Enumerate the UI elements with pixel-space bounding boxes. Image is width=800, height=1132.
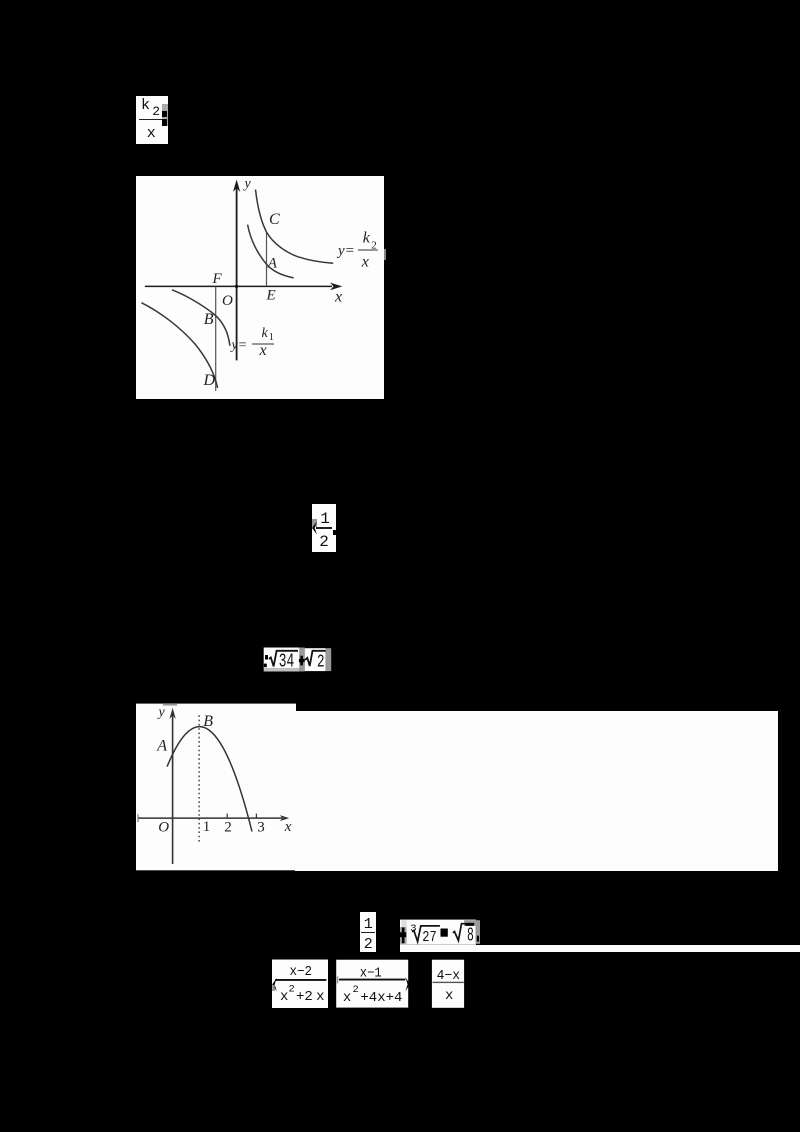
fraction bar [139, 119, 163, 121]
formula image 1/2 (bottom) [360, 912, 376, 952]
fraction bar 2 [339, 979, 405, 981]
gray block top right [464, 920, 476, 926]
fraction box (x-2)/(x^2+2x) [272, 960, 328, 1009]
hyperbola k2 outer branch (Q1) [256, 190, 334, 264]
left edge tick [137, 814, 139, 822]
svg-text:2: 2 [317, 651, 325, 672]
y-axis [171, 715, 173, 864]
graph 2 (parabola) [136, 703, 296, 871]
black artifact blob 2 [162, 119, 167, 126]
white box [400, 920, 476, 945]
radical sign sqrt34 [269, 651, 298, 667]
svg-text:k: k [363, 229, 371, 246]
svg-text:2: 2 [289, 984, 295, 996]
gray smudge above y label [163, 704, 177, 706]
gray column left [400, 927, 407, 944]
parabola [167, 727, 252, 832]
svg-text:k: k [262, 326, 269, 341]
numerator 1 [320, 511, 330, 527]
svg-text:3: 3 [410, 923, 416, 935]
svg-text:x: x [259, 342, 267, 359]
svg-text:x: x [334, 289, 342, 306]
fraction row [266, 955, 470, 1011]
svg-text:+4x+4: +4x+4 [360, 990, 402, 1006]
subscript 2 [152, 105, 160, 118]
left gray tick [337, 976, 339, 983]
comma artifact [477, 936, 479, 942]
svg-text:x: x [283, 819, 291, 835]
left gray artifact [312, 519, 317, 527]
svg-text:O: O [158, 819, 169, 835]
svg-text:A: A [156, 737, 167, 754]
svg-text:27: 27 [422, 930, 436, 947]
x-axis arrowhead [279, 815, 288, 821]
numerator 1 [364, 919, 373, 931]
fraction bar [316, 527, 332, 529]
black square (equals artifact) [441, 929, 448, 937]
svg-text:y: y [156, 705, 165, 720]
svg-text:+2: +2 [296, 989, 313, 1005]
svg-text:x: x [316, 989, 324, 1005]
fraction box (4-x)/x [432, 960, 464, 1008]
white strip under cube-root formula [400, 945, 800, 953]
black left mark b [264, 664, 267, 668]
vertical segment F-D [215, 286, 217, 391]
svg-text:E: E [266, 288, 276, 304]
gray artifact column [162, 104, 168, 126]
svg-text:D: D [203, 372, 216, 389]
vertical segment E-C [266, 232, 268, 286]
formula image sqrt(34)+sqrt(2) [263, 647, 332, 672]
fraction bar 3 [433, 982, 464, 983]
svg-text:x: x [445, 988, 453, 1004]
right black wedge artifact [405, 977, 410, 991]
svg-text:C: C [269, 211, 280, 228]
formula image k2/x (top) [136, 96, 168, 144]
svg-text:y=: y= [230, 338, 248, 353]
y-axis [236, 188, 238, 360]
graph 1 white background [136, 176, 384, 399]
svg-text:F: F [212, 271, 223, 287]
black plus artifact [402, 928, 405, 944]
x glyph [147, 127, 156, 141]
hyperbola inner branch (Q1) [248, 225, 294, 278]
hyperbola k1 inner branch (Q3) [172, 290, 230, 346]
x-axis [138, 817, 282, 819]
black left mark a [265, 655, 268, 660]
right black artifact [333, 530, 336, 535]
radical sign sqrt8 [453, 924, 474, 941]
svg-text:x: x [343, 990, 351, 1006]
origin junction dot [235, 285, 238, 288]
right gray column [326, 648, 332, 671]
svg-text:1: 1 [269, 332, 274, 343]
svg-text:34: 34 [279, 650, 295, 672]
fraction bar [361, 932, 376, 934]
black artifact blob [162, 111, 167, 117]
graph 2 white background [136, 704, 296, 871]
graph 1 (hyperbolas) [136, 176, 384, 399]
denominator 2 [319, 534, 329, 550]
svg-text:A: A [267, 256, 278, 272]
plus sign [299, 659, 305, 662]
left black wedge artifact [272, 978, 277, 991]
gray tab at graph1 right edge [384, 249, 386, 260]
svg-text:x−2: x−2 [290, 965, 313, 980]
x-axis arrowhead [330, 283, 342, 291]
fraction box (x-1)/(x^2+4x+4) [336, 960, 408, 1008]
tick above 2 [226, 814, 228, 819]
x-axis [145, 285, 332, 287]
radical sign sqrt2 [305, 651, 326, 666]
tick above 3 [255, 814, 257, 819]
fraction bar 1 [275, 979, 326, 981]
formula image 1/2 (middle) [312, 504, 336, 552]
svg-text:1: 1 [202, 819, 210, 835]
fraction bar (k1/x) [252, 343, 274, 345]
left box bottom gray strip [264, 668, 300, 671]
svg-text:2: 2 [224, 820, 232, 836]
hyperbola outer branch (Q3) [141, 303, 217, 388]
svg-text:x: x [361, 253, 369, 270]
svg-text:3: 3 [257, 820, 265, 836]
y-axis arrowhead [169, 708, 175, 719]
svg-text:8: 8 [467, 925, 474, 947]
svg-text:y=: y= [336, 243, 355, 259]
k glyph [141, 99, 150, 113]
svg-text:B: B [204, 311, 214, 328]
fraction bar (k2/x) [358, 249, 378, 251]
wide white band (question area) [295, 711, 778, 871]
light gray top-left square [401, 920, 406, 927]
overline bold over 8 [465, 923, 474, 926]
svg-text:O: O [222, 293, 233, 309]
svg-text:y: y [243, 177, 252, 192]
svg-text:x: x [280, 989, 288, 1005]
left white box [264, 648, 300, 669]
denominator 2 [364, 939, 373, 951]
left black wedge artifact [310, 518, 320, 538]
right white box [305, 648, 326, 671]
gray column right [476, 920, 481, 944]
y-axis arrowhead [233, 180, 240, 192]
dotted vertical line x=1 [198, 715, 200, 841]
middle gray band [299, 648, 304, 672]
radical sign cbrt27 [412, 926, 440, 942]
formula image cbrt(27) = sqrt(8) [399, 919, 481, 953]
svg-text:2: 2 [353, 984, 359, 996]
svg-text:B: B [203, 713, 213, 730]
